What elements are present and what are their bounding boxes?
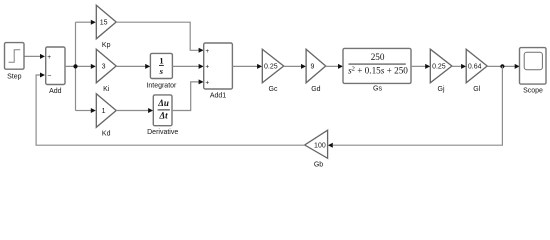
feedback wire from Scope junction down and left to Gb — [333, 66, 502, 145]
wire Step to Add — [24, 55, 41, 57]
wire Gc to Gd — [284, 65, 302, 67]
svg-text:15: 15 — [100, 20, 108, 27]
svg-text:0.64: 0.64 — [468, 64, 482, 71]
gain Gl — [466, 49, 487, 83]
transfer function block Gs — [343, 48, 411, 83]
wire Add1 to Gc — [232, 65, 258, 67]
svg-text:0.25: 0.25 — [432, 64, 446, 71]
svg-text:Gj: Gj — [438, 86, 445, 93]
gain Gd — [306, 49, 326, 83]
gain Gb pointing left — [305, 130, 328, 158]
wire Gl to Scope — [487, 65, 515, 67]
svg-text:Add: Add — [49, 88, 62, 95]
arrowhead into Ki — [91, 64, 96, 69]
svg-text:Derivative: Derivative — [147, 129, 178, 136]
arrowhead into Kd — [91, 108, 96, 113]
arrowhead into Add1 input3 — [199, 79, 204, 84]
arrowhead into Add1 input1 — [199, 48, 204, 53]
arrowhead into Gd — [301, 64, 306, 69]
arrowhead into Gs — [338, 64, 343, 69]
gain Gc — [262, 49, 283, 83]
sum block Add1 — [204, 43, 233, 89]
arrowhead into Kp — [91, 20, 96, 25]
svg-text:Kp: Kp — [102, 42, 111, 49]
junction node after Add — [73, 64, 77, 68]
integrator block Integrator — [150, 53, 172, 78]
wire Derivative to Add1 input3 — [172, 82, 200, 111]
svg-text:+: + — [47, 54, 51, 61]
svg-text:250: 250 — [371, 52, 385, 62]
wire branch to Kp — [76, 21, 92, 23]
arrowhead into Gc — [257, 64, 262, 69]
wire Kp to Add1 input1 — [116, 22, 199, 50]
wire Integrator to Add1 input2 — [172, 65, 199, 67]
svg-text:Scope: Scope — [523, 87, 543, 94]
svg-text:Gl: Gl — [473, 86, 480, 93]
step source Step — [5, 43, 25, 70]
svg-text:s: s — [159, 66, 164, 76]
svg-text:Gs: Gs — [373, 86, 382, 93]
arrowhead into Gj — [425, 64, 430, 69]
arrowhead into Derivative — [148, 108, 153, 113]
svg-text:Δu: Δu — [157, 98, 169, 108]
svg-text:+: + — [205, 79, 209, 86]
svg-text:−: − — [47, 73, 51, 80]
svg-text:1: 1 — [159, 56, 163, 66]
arrowhead into Add minus input — [40, 73, 45, 78]
arrowhead into Scope — [515, 64, 520, 69]
svg-text:Integrator: Integrator — [146, 83, 177, 90]
wire branch to Kd — [76, 110, 92, 112]
svg-text:Gd: Gd — [311, 86, 320, 93]
gain Ki — [96, 49, 116, 83]
wire Kd to Derivative — [116, 110, 149, 112]
arrowhead into Gl — [461, 64, 466, 69]
svg-text:+: + — [205, 48, 209, 55]
svg-text:0.25: 0.25 — [264, 64, 278, 71]
svg-text:s2 + 0.15s + 250: s2 + 0.15s + 250 — [348, 65, 408, 75]
arrowhead into Add plus input — [40, 54, 45, 59]
wire Gj to Gl — [452, 65, 462, 67]
wire Add output to Ki with branch node — [65, 65, 92, 67]
svg-text:Gc: Gc — [269, 86, 278, 93]
svg-text:9: 9 — [311, 64, 315, 71]
svg-text:Kd: Kd — [102, 130, 111, 137]
svg-text:Gb: Gb — [314, 161, 323, 168]
svg-text:+: + — [205, 64, 209, 71]
derivative block Derivative — [153, 95, 172, 126]
scope block Scope — [520, 48, 547, 85]
arrowhead into Gb pointing left — [328, 143, 333, 148]
arrowhead into Add1 input2 — [199, 64, 204, 69]
sum block Add — [46, 47, 65, 85]
gain Kp — [96, 5, 116, 39]
wire Ki to Integrator — [116, 65, 146, 67]
svg-text:100: 100 — [314, 143, 326, 150]
svg-text:Δt: Δt — [159, 110, 169, 120]
gain Kd — [96, 94, 116, 128]
svg-text:Add1: Add1 — [210, 93, 226, 100]
branch vertical wire to Kp and Kd — [75, 22, 77, 110]
wire Gs to Gj — [411, 65, 426, 67]
wire Gd to Gs — [326, 65, 339, 67]
arrowhead into Integrator — [145, 64, 150, 69]
feedback wire from Gb to Add minus input — [36, 75, 305, 145]
svg-text:Step: Step — [7, 73, 22, 80]
gain Gj — [430, 49, 452, 83]
junction node before Scope — [500, 64, 504, 68]
svg-text:Ki: Ki — [103, 86, 110, 93]
svg-text:1: 1 — [102, 108, 106, 115]
svg-text:3: 3 — [102, 64, 106, 71]
